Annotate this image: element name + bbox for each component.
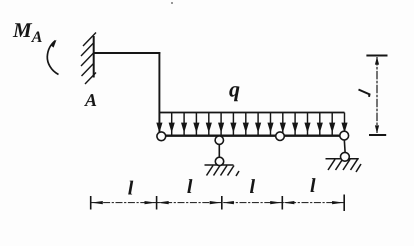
bottom dimension line [91,202,345,204]
distributed load q top line [159,112,344,114]
middle support lower hinge circle [215,157,223,165]
svg-text:q: q [229,77,240,102]
fixed support wall [93,36,95,78]
svg-text:l: l [128,177,134,199]
right end hinge circle [340,131,349,140]
middle support link [218,141,220,159]
right support link [344,138,345,154]
right vertical dimension top tick [366,55,387,57]
speck [171,2,173,4]
right support lower hinge circle [341,152,350,161]
right support ground [326,159,362,172]
right dimension label l [359,90,370,97]
wall hatching [81,33,96,85]
left end hinge circle [157,132,166,141]
dimension arrowheads [91,201,343,204]
right vertical dimension bottom tick [369,134,386,136]
vertical member [158,52,160,133]
top horizontal member [94,52,161,54]
dimension ticks [91,195,345,212]
middle support upper hinge circle [215,136,223,144]
distributed load arrows [157,113,346,135]
middle support ground [205,165,240,176]
intermediate hinge circle [276,132,285,141]
svg-text:A: A [84,90,97,110]
svg-text:l: l [187,176,193,198]
svg-text:l: l [310,175,316,197]
right vertical dimension arrowheads [375,57,379,133]
right vertical dimension line [376,57,378,133]
moment arc arrow [47,41,58,75]
svg-text:l: l [250,176,256,198]
beam [162,135,343,137]
